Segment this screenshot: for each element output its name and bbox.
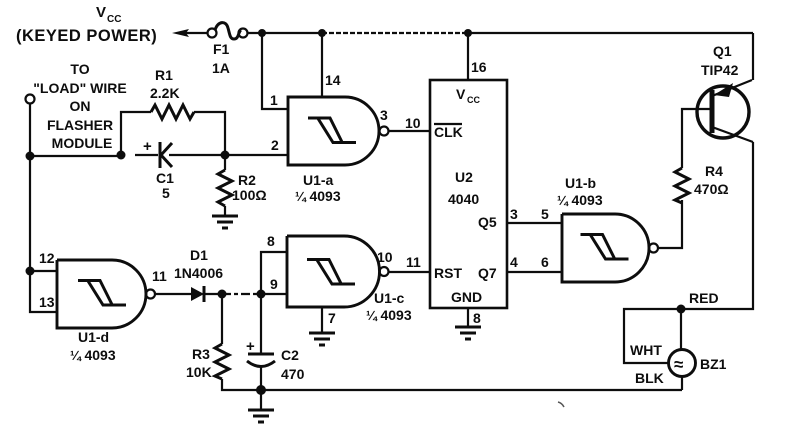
ground R2: [212, 216, 238, 228]
wire D1 to pin9: [222, 293, 261, 295]
svg-text:2.2K: 2.2K: [150, 85, 180, 101]
svg-text:470: 470: [281, 366, 305, 382]
wire ground rail to buzzer: [261, 389, 682, 391]
node ground rail junction: [256, 385, 266, 395]
svg-text:1N4006: 1N4006: [174, 265, 223, 281]
svg-text:3: 3: [380, 107, 388, 123]
op-amp U1-b nand gate: [562, 214, 658, 282]
svg-text:1: 1: [270, 92, 278, 108]
terminal to load wire: [26, 95, 35, 104]
node fuse-rail junction: [258, 29, 266, 37]
arrow to Vcc: [172, 29, 207, 37]
svg-text:F1: F1: [213, 41, 230, 57]
wire Vcc rail: [247, 32, 753, 34]
label R2 100ohm: [232, 172, 267, 203]
wire U1-a out to CLK: [389, 130, 430, 132]
svg-text:5: 5: [162, 185, 170, 201]
op-amp U1-c nand gate: [287, 236, 389, 307]
wire U2 pin8: [467, 308, 469, 327]
node pin14 rail junction: [318, 29, 326, 37]
wire rail to U2 pin16: [467, 33, 469, 80]
node R3 top junction: [218, 290, 227, 299]
resistor R3: [215, 294, 261, 390]
wire U1-b out to R4: [658, 200, 682, 248]
svg-text:R2: R2: [238, 172, 256, 188]
wire pin9: [261, 293, 287, 295]
label U2 4040: [448, 169, 479, 207]
svg-text:16: 16: [471, 59, 487, 75]
svg-text:9: 9: [270, 276, 278, 292]
ground C2: [248, 390, 274, 422]
svg-text:10K: 10K: [186, 364, 212, 380]
svg-text:ON: ON: [70, 98, 91, 114]
wire pin12: [30, 270, 57, 272]
svg-text:FLASHER: FLASHER: [47, 117, 113, 133]
pin 4 6 labels: [510, 254, 549, 270]
svg-text:2: 2: [271, 137, 279, 153]
svg-text:+: +: [246, 338, 255, 355]
svg-text:D1: D1: [190, 247, 208, 263]
svg-text:(KEYED POWER): (KEYED POWER): [16, 27, 157, 45]
wire Q7 to U1-b pin6: [507, 271, 562, 273]
svg-text:3: 3: [510, 206, 518, 222]
svg-text:14: 14: [325, 72, 341, 88]
svg-text:CC: CC: [107, 14, 121, 25]
wire rail to pin14: [321, 33, 323, 97]
svg-text:7: 7: [328, 310, 336, 326]
svg-text:¼ 4093: ¼ 4093: [557, 192, 603, 208]
label R4 470ohm: [694, 163, 729, 197]
diode D1: [155, 286, 222, 302]
label TO LOAD WIRE ON FLASHER MODULE: [33, 61, 126, 151]
svg-text:100Ω: 100Ω: [232, 187, 267, 203]
capacitor C2: [247, 294, 275, 390]
svg-text:U1-d: U1-d: [78, 329, 109, 345]
resistor R2: [218, 155, 232, 216]
svg-text:WHT: WHT: [630, 342, 662, 358]
label U1-b: [557, 175, 603, 208]
wire pin8 elbow: [261, 252, 287, 294]
svg-text:470Ω: 470Ω: [694, 181, 729, 197]
svg-text:13: 13: [39, 294, 55, 310]
svg-text:≈: ≈: [674, 355, 683, 374]
buzzer BZ1: [669, 350, 696, 391]
svg-text:4040: 4040: [448, 191, 479, 207]
svg-text:+: +: [143, 138, 152, 155]
wire collector down: [681, 142, 753, 309]
svg-text:12: 12: [39, 250, 55, 266]
svg-text:U1-b: U1-b: [565, 175, 596, 191]
wire terminal down: [29, 103, 31, 156]
svg-text:¼ 4093: ¼ 4093: [70, 347, 116, 363]
svg-text:1A: 1A: [212, 60, 230, 76]
svg-text:BZ1: BZ1: [700, 356, 727, 372]
label U1-a: [295, 172, 341, 204]
wire U1-c out to RST: [389, 271, 430, 273]
svg-text:11: 11: [152, 268, 167, 284]
svg-text:Q1: Q1: [713, 43, 732, 59]
wire Q5 to U1-b pin5: [507, 222, 562, 224]
wire base R4: [682, 109, 712, 164]
node C1 right junction: [221, 151, 230, 160]
wire pin7: [321, 307, 323, 333]
label Vcc: [96, 4, 121, 25]
label R1 2.2K: [150, 67, 180, 101]
svg-text:CLK: CLK: [434, 124, 463, 140]
label R3 10K: [186, 346, 212, 380]
svg-text:U1-c: U1-c: [374, 290, 405, 306]
svg-text:Q7: Q7: [478, 265, 497, 281]
svg-text:RST: RST: [434, 265, 462, 281]
svg-text:TIP42: TIP42: [701, 62, 739, 78]
wire left down to U1-d: [29, 156, 31, 271]
wire pin13: [30, 271, 57, 312]
op-amp U1-d nand gate: [57, 260, 155, 328]
svg-text:10: 10: [405, 115, 421, 131]
svg-text:Q5: Q5: [478, 214, 497, 230]
svg-text:RED: RED: [689, 290, 719, 306]
svg-text:5: 5: [541, 206, 549, 222]
IC U2 4040 box: [430, 80, 507, 308]
svg-text:"LOAD" WIRE: "LOAD" WIRE: [33, 80, 126, 96]
svg-text:CC: CC: [467, 95, 480, 105]
label F1 1A: [212, 41, 230, 76]
wire rail to emitter: [752, 33, 754, 80]
capacitor C1: [135, 142, 225, 168]
ground U2: [455, 327, 481, 339]
wire rail to pin1: [262, 33, 288, 109]
transistor Q1: [697, 80, 753, 142]
resistor R1: [121, 105, 225, 155]
svg-text:GND: GND: [451, 289, 482, 305]
svg-text:4: 4: [510, 254, 518, 270]
svg-text:8: 8: [473, 310, 481, 326]
svg-text:U2: U2: [455, 169, 473, 185]
label D1 1N4006: [174, 247, 223, 281]
label Q1 TIP42: [701, 43, 739, 78]
svg-text:C2: C2: [281, 347, 299, 363]
node U1-d input junction: [26, 267, 35, 276]
node RED junction: [677, 305, 686, 314]
svg-text:11: 11: [406, 254, 421, 270]
ground U1-c: [309, 333, 335, 345]
wire left horizontal to C1: [30, 155, 121, 157]
svg-text:R1: R1: [155, 67, 173, 83]
fuse F1: [208, 23, 248, 39]
svg-text:6: 6: [541, 254, 549, 270]
resistor R4: [675, 164, 689, 203]
label U1-d: [70, 329, 116, 363]
wire WHT elbow: [624, 309, 681, 363]
svg-text:10: 10: [377, 249, 393, 265]
svg-text:BLK: BLK: [635, 370, 664, 386]
node C1 left junction: [117, 151, 126, 160]
op-amp U1-a nand gate: [288, 97, 389, 165]
svg-text:¼ 4093: ¼ 4093: [366, 307, 412, 323]
svg-text:MODULE: MODULE: [52, 135, 113, 151]
artifact mark: [558, 402, 564, 407]
pin 3 5 labels: [510, 206, 549, 222]
node U2 Vcc rail junction: [464, 29, 472, 37]
wire red to buzzer top: [680, 309, 682, 350]
svg-text:TO: TO: [70, 61, 89, 77]
svg-text:¼ 4093: ¼ 4093: [295, 188, 341, 204]
node C2 top junction: [257, 290, 266, 299]
label C1 5: [156, 170, 174, 201]
svg-text:C1: C1: [156, 170, 174, 186]
svg-text:V: V: [96, 4, 106, 21]
label U1-c: [366, 290, 412, 323]
label CLK: [434, 124, 463, 140]
svg-text:8: 8: [267, 233, 275, 249]
svg-text:R3: R3: [192, 346, 210, 362]
label C2 470: [281, 347, 305, 382]
label U2 Vcc: [456, 86, 480, 105]
svg-text:U1-a: U1-a: [303, 172, 334, 188]
svg-text:R4: R4: [705, 163, 723, 179]
wire junction to pin2: [225, 154, 288, 156]
node left junction A: [26, 152, 35, 161]
svg-text:V: V: [456, 86, 466, 102]
